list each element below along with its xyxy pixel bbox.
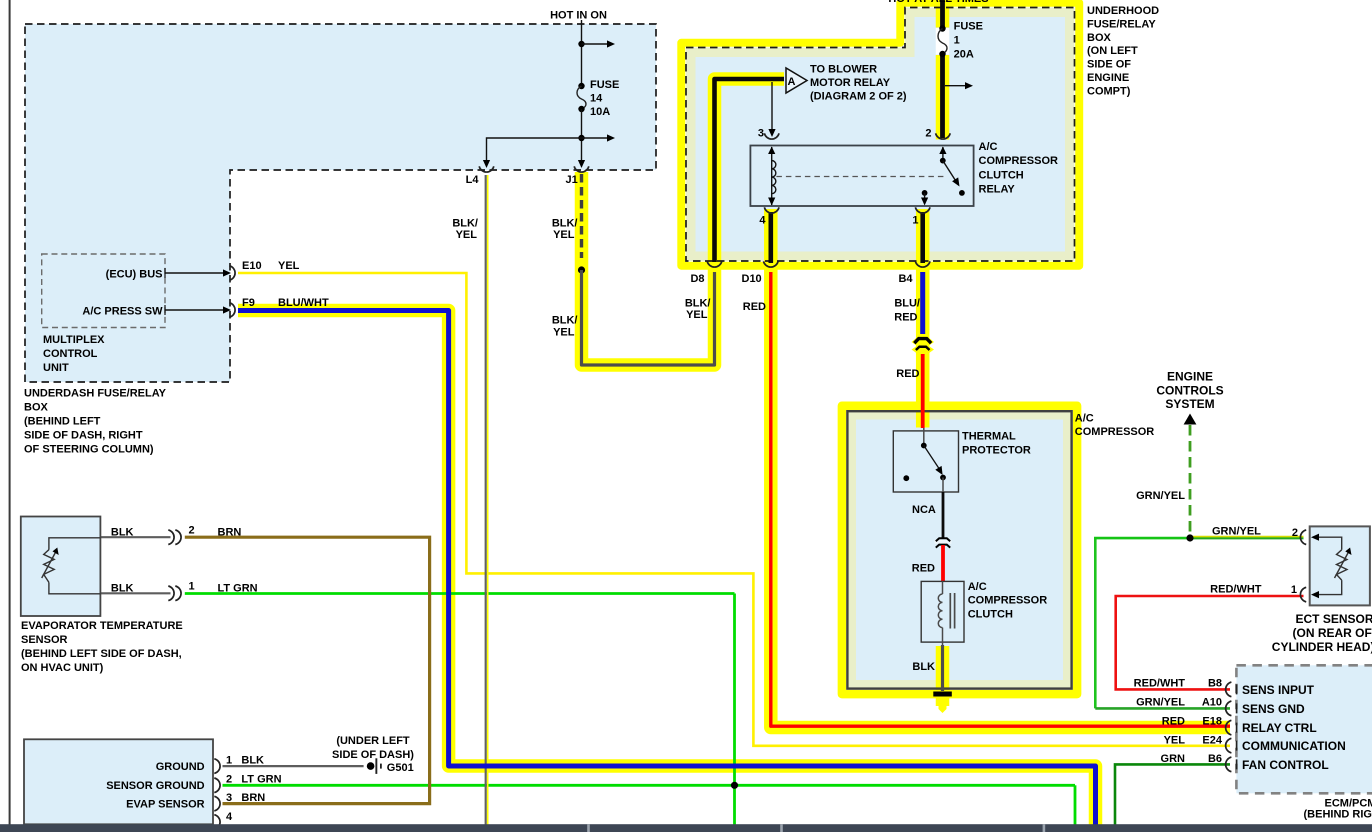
wire LT GRN vertical to bottom	[733, 594, 736, 827]
connector arc D10	[764, 261, 779, 267]
svg-text:CONTROLS: CONTROLS	[1156, 383, 1223, 397]
connector arc E10	[229, 266, 235, 281]
highlight band A/C clutch ground wire	[936, 646, 950, 706]
svg-text:COMPRESSOR: COMPRESSOR	[1075, 426, 1155, 438]
white gap at fuse 1	[936, 28, 950, 55]
arrow into J1	[578, 160, 585, 168]
svg-text:HOT AT ALL TIMES: HOT AT ALL TIMES	[888, 0, 988, 5]
svg-text:CYLINDER HEAD): CYLINDER HEAD)	[1272, 640, 1372, 654]
relay linkage dashed line	[776, 176, 944, 178]
branch arrow right below fuse 1	[945, 85, 966, 87]
svg-text:ON HVAC UNIT): ON HVAC UNIT)	[21, 662, 104, 674]
highlight band relay pin 1 through B4 to thermal protector	[916, 209, 930, 428]
B4 inline connector chevrons	[914, 339, 931, 344]
svg-text:GRN/YEL: GRN/YEL	[1212, 526, 1261, 538]
underdash fuse/relay box dashed border	[25, 24, 656, 382]
svg-text:A10: A10	[1202, 696, 1222, 708]
A/C compressor box inner blue fill	[856, 420, 1063, 681]
highlight band F9 BLU/WHT wire path	[238, 311, 1096, 832]
svg-text:BLK: BLK	[912, 661, 935, 673]
wire GRN B6 to bottom	[1115, 764, 1230, 826]
svg-text:RED: RED	[894, 312, 917, 324]
connector arc relay pin 1	[915, 207, 930, 213]
highlight diamond at B4 inline connector	[912, 333, 935, 351]
svg-text:RED: RED	[743, 301, 766, 313]
wire LT GRN right vertical to bottom	[1074, 785, 1077, 826]
svg-text:FUSE: FUSE	[954, 21, 983, 33]
svg-text:NCA: NCA	[912, 504, 936, 516]
thermal protector output wire NCA	[942, 478, 944, 493]
svg-text:EVAP SENSOR: EVAP SENSOR	[126, 799, 205, 811]
svg-text:A/C: A/C	[1075, 413, 1094, 425]
ECM/PCM dashed box border	[1236, 665, 1372, 793]
highlight band relay pin 4 through D10 to ECM E18	[771, 209, 1230, 728]
core black fuse1 wire lower	[940, 55, 945, 139]
connector arc pin 4 bottom box	[214, 815, 220, 830]
svg-text:(DIAGRAM 2 OF 2): (DIAGRAM 2 OF 2)	[810, 91, 907, 103]
svg-text:E24: E24	[1202, 735, 1222, 747]
highlight taper below ground	[939, 704, 947, 713]
svg-text:ENGINE: ENGINE	[1087, 72, 1129, 84]
clutch core bars	[950, 593, 954, 629]
relay switch arm	[943, 161, 956, 181]
wire below fuse 14	[581, 109, 583, 161]
svg-text:UNDERHOOD: UNDERHOOD	[1087, 5, 1159, 17]
svg-text:F9: F9	[242, 297, 255, 309]
core RED B4 connector to thermal protector	[921, 354, 925, 428]
svg-text:EVAPORATOR TEMPERATURE: EVAPORATOR TEMPERATURE	[21, 620, 183, 632]
svg-text:2: 2	[1292, 527, 1298, 539]
svg-text:YEL: YEL	[553, 229, 575, 241]
svg-text:E18: E18	[1202, 716, 1222, 728]
svg-text:MOTOR RELAY: MOTOR RELAY	[810, 77, 891, 89]
branch wire to L4	[487, 138, 582, 161]
svg-text:2: 2	[189, 525, 195, 537]
wire GRN/YEL vertical ECT pin2 to ECM A10	[1094, 538, 1097, 708]
svg-text:HOT IN ON: HOT IN ON	[550, 9, 607, 21]
svg-text:(UNDER LEFT: (UNDER LEFT	[336, 735, 410, 747]
thermal protector box	[893, 431, 958, 492]
underhood fuse/relay box inner blue fill	[696, 17, 1066, 252]
svg-text:FAN CONTROL: FAN CONTROL	[1242, 758, 1329, 772]
engine controls system triangle	[1184, 414, 1197, 425]
wire BLK/YEL L4 gray part	[485, 175, 487, 826]
svg-text:RED: RED	[912, 563, 935, 575]
svg-text:OF STEERING COLUMN): OF STEERING COLUMN)	[24, 444, 154, 456]
wire GRN/YEL dashed to engine controls system	[1189, 425, 1192, 534]
thermal protector contacts	[903, 475, 909, 481]
relay pin1 contact and arrow	[922, 190, 928, 196]
svg-text:20A: 20A	[954, 49, 974, 61]
svg-text:B6: B6	[1208, 753, 1222, 765]
svg-text:YEL: YEL	[278, 260, 300, 272]
svg-text:RED: RED	[1162, 716, 1185, 728]
highlight ring around A/C compressor box	[842, 406, 1077, 694]
wire LT GRN evap pin1 horizontal	[185, 592, 735, 595]
wire BLK evap pin2	[100, 536, 170, 538]
svg-text:A/C: A/C	[979, 141, 998, 153]
svg-text:GROUND: GROUND	[156, 761, 205, 773]
core RED to clutch	[941, 545, 945, 581]
svg-text:UNDERDASH FUSE/RELAY: UNDERDASH FUSE/RELAY	[24, 388, 167, 400]
evaporator temperature sensor box	[21, 517, 101, 617]
svg-text:YEL: YEL	[553, 326, 575, 338]
svg-text:THERMAL: THERMAL	[962, 431, 1016, 443]
svg-text:2: 2	[226, 774, 232, 786]
core BLU/RED B4	[920, 272, 925, 334]
svg-text:B8: B8	[1208, 677, 1222, 689]
svg-text:BLU/WHT: BLU/WHT	[278, 297, 329, 309]
svg-text:J1: J1	[566, 174, 578, 186]
ECM pin connector arcs and bars	[1226, 682, 1237, 697]
svg-text:RELAY CTRL: RELAY CTRL	[1242, 721, 1317, 735]
svg-text:COMPT): COMPT)	[1087, 85, 1131, 97]
svg-text:COMPRESSOR: COMPRESSOR	[968, 595, 1048, 607]
connector arc relay pin 3	[764, 133, 779, 139]
underdash fuse/relay box fill (L-shape)	[25, 24, 656, 382]
svg-text:FUSE/RELAY: FUSE/RELAY	[1087, 18, 1156, 30]
svg-text:BRN: BRN	[241, 792, 265, 804]
svg-text:BLK: BLK	[111, 583, 134, 595]
ECT sensor box fill	[1310, 526, 1370, 605]
svg-text:RED/WHT: RED/WHT	[1134, 677, 1186, 689]
svg-text:BLK/: BLK/	[685, 297, 711, 309]
ECT inner wires with arrows	[1316, 537, 1342, 594]
clutch coil wire	[942, 581, 944, 594]
wire BLK evap pin1	[100, 592, 170, 594]
svg-text:2: 2	[925, 128, 931, 140]
svg-text:COMMUNICATION: COMMUNICATION	[1242, 739, 1346, 753]
svg-text:(ON REAR OF: (ON REAR OF	[1293, 626, 1372, 640]
svg-text:RED/WHT: RED/WHT	[1210, 584, 1262, 596]
svg-text:UNIT: UNIT	[43, 362, 69, 374]
svg-text:YEL: YEL	[1164, 735, 1186, 747]
svg-text:1: 1	[954, 35, 960, 47]
svg-text:(BEHIND LEFT SIDE OF DASH,: (BEHIND LEFT SIDE OF DASH,	[21, 648, 182, 660]
clutch coil bumps	[938, 594, 942, 628]
evaporator temperature sensor box fill	[21, 517, 101, 617]
connector arc pin 1 bottom box	[214, 759, 220, 774]
svg-text:BOX: BOX	[1087, 32, 1112, 44]
NCA inline connector chevrons	[935, 540, 952, 544]
underdash connector box fill (bottom left)	[24, 739, 213, 824]
underdash connector box (bottom left)	[24, 739, 213, 824]
fuse 14 symbol	[578, 83, 584, 89]
multiplex arrow wire F9	[165, 309, 224, 311]
branch arrow right top	[582, 43, 609, 45]
svg-text:1: 1	[912, 214, 918, 226]
highlight band fuse 1 wire upper	[936, 0, 950, 28]
svg-text:E10: E10	[242, 260, 262, 272]
svg-text:LT GRN: LT GRN	[241, 774, 281, 786]
connector arc ECT pin 1	[1300, 587, 1306, 602]
underhood fuse/relay box pale highlight fill	[686, 8, 1075, 262]
svg-text:(BEHIND LEFT: (BEHIND LEFT	[24, 416, 101, 428]
svg-text:(ON LEFT: (ON LEFT	[1087, 45, 1138, 57]
wire BLK/YEL L4 yellow stripe	[487, 175, 489, 826]
G501 ground symbol	[367, 762, 375, 770]
junction dot GRN/YEL	[1186, 534, 1193, 541]
svg-text:ECT SENSOR: ECT SENSOR	[1296, 612, 1372, 626]
svg-text:CLUTCH: CLUTCH	[979, 169, 1024, 181]
highlight ring around underhood fuse/relay box	[681, 3, 1079, 266]
connector arc F9	[229, 303, 235, 318]
relay pin2 inner wire and arrow	[942, 147, 944, 160]
wire LT GRN sensor ground horizontal	[223, 784, 1076, 787]
svg-text:(BEHIND RIGHT: (BEHIND RIGHT	[1304, 809, 1372, 821]
node dot top	[578, 41, 584, 47]
svg-text:YEL: YEL	[456, 229, 478, 241]
fuse 1 symbol	[939, 25, 945, 31]
core RED D10 to ECM E18	[771, 272, 1230, 726]
svg-text:1: 1	[226, 755, 232, 767]
ECT sensor box	[1310, 526, 1370, 605]
wire GRN/YEL yellow stripe	[1190, 536, 1304, 538]
svg-text:A: A	[788, 76, 796, 88]
tap wire from blower wire to relay pin 3	[771, 82, 773, 130]
svg-text:ENGINE: ENGINE	[1167, 369, 1213, 383]
underhood fuse/relay box dashed border	[686, 8, 1075, 262]
core BLU/WHT F9 path	[238, 311, 1096, 832]
svg-text:SIDE OF DASH, RIGHT: SIDE OF DASH, RIGHT	[24, 430, 143, 442]
evap thermistor zigzag	[44, 550, 55, 583]
svg-text:L4: L4	[466, 174, 480, 186]
svg-text:YEL: YEL	[686, 309, 708, 321]
ground bar below clutch	[933, 692, 952, 697]
bottom bar	[0, 824, 1372, 832]
svg-text:PROTECTOR: PROTECTOR	[962, 444, 1031, 456]
svg-text:SENS INPUT: SENS INPUT	[1242, 683, 1315, 697]
connector arc D8	[707, 261, 722, 267]
wire GRN/YEL horizontal to ECT pin2 green part	[1094, 537, 1190, 540]
svg-text:SIDE OF DASH): SIDE OF DASH)	[332, 749, 414, 761]
ECM/PCM box fill	[1236, 665, 1372, 793]
svg-text:MULTIPLEX: MULTIPLEX	[43, 334, 105, 346]
svg-text:D10: D10	[742, 273, 762, 285]
A/C compressor clutch box	[921, 581, 964, 642]
ECT thermistor zigzag	[1337, 550, 1348, 580]
svg-text:BLK/: BLK/	[552, 315, 578, 327]
core dark BLK clutch to ground	[941, 645, 944, 691]
connector arc J1	[574, 166, 589, 172]
connector arcs evap pin 2	[168, 530, 174, 545]
svg-text:BLU/: BLU/	[894, 298, 920, 310]
wire RED/WHT ECT pin1 to ECM B8	[1116, 596, 1304, 689]
svg-text:A/C PRESS SW: A/C PRESS SW	[82, 305, 163, 317]
svg-text:FUSE: FUSE	[590, 79, 619, 91]
svg-text:4: 4	[759, 214, 766, 226]
connector arc L4	[479, 166, 494, 172]
core black relay pin4	[768, 212, 773, 263]
svg-text:BLK/: BLK/	[552, 217, 578, 229]
svg-text:BLK: BLK	[241, 755, 264, 767]
wire E10 YEL path	[238, 273, 1230, 746]
svg-text:SIDE OF: SIDE OF	[1087, 59, 1131, 71]
core black relay pin1	[920, 212, 925, 263]
evap inner wires	[49, 538, 101, 594]
svg-text:SENSOR: SENSOR	[21, 634, 68, 646]
svg-text:SENS GND: SENS GND	[1242, 702, 1305, 716]
A/C compressor box border	[847, 411, 1071, 688]
arrow into L4	[483, 160, 490, 168]
relay coil line with arrows	[771, 147, 773, 205]
to blower motor relay triangle connector A	[786, 68, 807, 93]
svg-text:D8: D8	[690, 273, 704, 285]
svg-text:B4: B4	[898, 273, 913, 285]
svg-text:TO BLOWER: TO BLOWER	[810, 64, 877, 76]
svg-text:RED: RED	[896, 368, 919, 380]
core black D8 to blower triangle	[715, 79, 785, 262]
connector arc ECT pin 2	[1300, 530, 1306, 545]
svg-text:3: 3	[758, 128, 764, 140]
junction dot LT GRN	[731, 782, 738, 789]
core J1 dashed BLK/YEL segment	[580, 174, 583, 258]
connector arcs evap pin 1	[168, 586, 174, 601]
svg-text:BRN: BRN	[218, 527, 242, 539]
connector arc relay pin 4	[764, 207, 779, 213]
svg-text:LT GRN: LT GRN	[218, 583, 258, 595]
svg-text:1: 1	[189, 581, 195, 593]
core black fuse1 wire upper	[940, 0, 945, 28]
svg-text:1: 1	[1291, 584, 1297, 596]
svg-text:A/C: A/C	[968, 581, 987, 593]
connector arc pin 3 bottom box	[214, 796, 220, 811]
left frame edge line	[9, 0, 11, 825]
svg-text:4: 4	[226, 811, 233, 823]
node dot lower	[578, 135, 584, 141]
connector arc pin 2 bottom box	[214, 778, 220, 793]
branch arrow right lower	[582, 137, 609, 139]
svg-text:GRN/YEL: GRN/YEL	[1136, 490, 1185, 502]
svg-text:10A: 10A	[590, 106, 610, 118]
svg-text:BLK/: BLK/	[452, 217, 478, 229]
svg-text:SYSTEM: SYSTEM	[1165, 397, 1214, 411]
wire BRN evap pin2 to connector pin3	[185, 537, 430, 803]
multiplex arrow wire E10	[165, 272, 224, 274]
junction dot on J1 wire	[578, 266, 585, 273]
A/C compressor clutch relay box	[750, 146, 973, 207]
svg-text:GRN/YEL: GRN/YEL	[1136, 696, 1185, 708]
highlight band fuse 1 wire lower to relay pin 2	[936, 55, 950, 140]
wire BLK ground to G501	[223, 765, 364, 767]
connector arc relay pin 2	[936, 133, 951, 139]
thermal protector input wire	[923, 428, 925, 445]
thermal protector switch arm	[924, 446, 939, 469]
svg-text:CLUTCH: CLUTCH	[968, 609, 1013, 621]
core BLK/YEL J1 to D8 solid	[582, 270, 715, 365]
svg-text:G501: G501	[387, 762, 414, 774]
A/C compressor box pale highlight fill	[847, 411, 1071, 688]
svg-text:BOX: BOX	[24, 402, 49, 414]
svg-text:BLK: BLK	[111, 527, 134, 539]
connector arc B4	[915, 261, 930, 267]
svg-text:(ECU) BUS: (ECU) BUS	[106, 268, 163, 280]
multiplex control unit dashed box	[42, 254, 165, 328]
svg-text:GRN: GRN	[1161, 753, 1186, 765]
svg-text:CONTROL: CONTROL	[43, 348, 98, 360]
highlight band J1 wire to D8 to blower relay triangle	[582, 79, 785, 365]
wire hot in on vertical	[581, 20, 583, 86]
svg-text:COMPRESSOR: COMPRESSOR	[979, 155, 1059, 167]
svg-text:3: 3	[226, 792, 232, 804]
relay coil bumps	[772, 161, 776, 194]
svg-text:RELAY: RELAY	[979, 183, 1016, 195]
svg-text:14: 14	[590, 92, 603, 104]
svg-text:SENSOR GROUND: SENSOR GROUND	[106, 780, 204, 792]
